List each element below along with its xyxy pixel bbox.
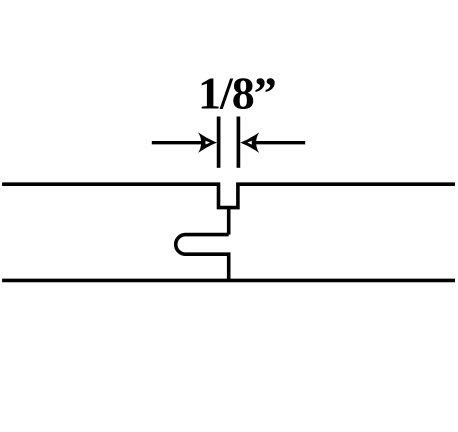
dimension arrow left shaft (152, 141, 205, 144)
extension line left (217, 117, 221, 168)
board top edge with notch (seam gap) (2, 184, 455, 207)
seam center vertical (227, 206, 231, 235)
board bottom edge (2, 279, 455, 283)
dimension arrowhead left (points right) (198, 132, 217, 153)
svg-text:1/8”: 1/8” (198, 68, 276, 119)
extension line right (237, 117, 241, 168)
dimension arrowhead right (points left) (240, 132, 259, 153)
dimension arrow right shaft (253, 141, 305, 144)
tongue outline with rounded end (176, 235, 229, 281)
